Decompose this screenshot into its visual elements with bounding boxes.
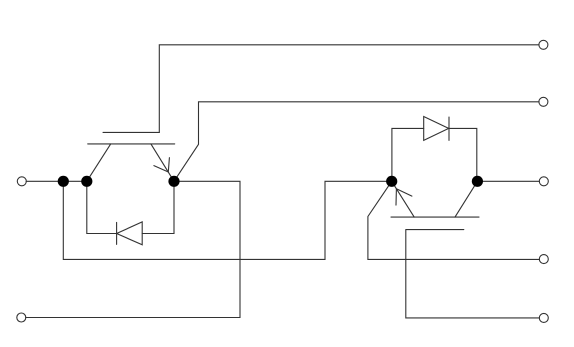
wire from terminal 2 left then down to emitter node of Q1 [174, 102, 539, 182]
wire node5 to terminal 3 [477, 180, 539, 182]
IGBT Q1 emitter arrowhead [154, 158, 170, 172]
diode D2 triangle [424, 117, 449, 141]
wire gate of Q2 down and right to bottom right terminal [406, 230, 540, 318]
wire diode D2 cathode leg [449, 128, 477, 181]
junction node 1 [58, 176, 69, 187]
wire gate of Q1 up and right to terminal 1 [159, 45, 539, 133]
wire node3 right, down, to bottom left terminal [26, 181, 240, 317]
terminal 4 [539, 255, 548, 264]
IGBT Q2 gate bar [406, 229, 464, 231]
junction node 5 [472, 176, 483, 187]
IGBT Q1 channel bar [88, 143, 175, 145]
junction node 3 [168, 176, 179, 187]
junction node 2 [81, 176, 92, 187]
IGBT Q2 channel bar [391, 216, 479, 218]
terminal 2 [539, 97, 548, 106]
wire diode D1 anode leg [142, 181, 174, 233]
IGBT Q2 emitter arrowhead [396, 189, 412, 205]
diode D1 triangle [117, 222, 143, 245]
IGBT Q1 collector lead [87, 144, 111, 181]
junction node 4 [386, 176, 397, 187]
wire node1 down and across to node4 [63, 181, 391, 259]
diode D1 cathode bar [116, 222, 118, 244]
wire diode D2 anode leg [392, 128, 424, 181]
terminal bottom left [17, 313, 26, 322]
IGBT Q1 emitter lead [151, 144, 174, 181]
wire left terminal to node row [26, 180, 87, 182]
IGBT Q2 emitter lead [392, 181, 415, 217]
wire diode D1 cathode leg [87, 181, 117, 233]
terminal 3 (right middle) [539, 177, 548, 186]
diode D2 cathode bar [448, 117, 450, 140]
IGBT Q2 collector lead [455, 181, 477, 217]
terminal left middle [17, 177, 26, 186]
IGBT Q1 gate bar [103, 131, 159, 133]
wire node4 down-left, down, right to terminal 4 [368, 181, 540, 259]
terminal bottom right [539, 313, 548, 322]
terminal 1 (top right) [539, 40, 548, 49]
